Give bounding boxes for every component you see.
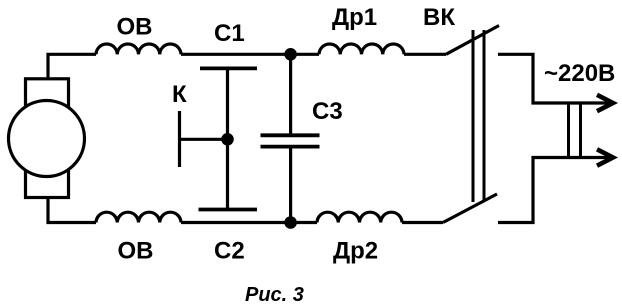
label С1 — [214, 20, 245, 47]
node: bottom junction — [284, 216, 297, 229]
switch VK gang bar line 2 — [483, 30, 486, 202]
motor brush (bottom) — [26, 162, 69, 198]
svg-text:К: К — [172, 81, 187, 108]
svg-text:Рис. 3: Рис. 3 — [245, 284, 304, 306]
label С2 — [214, 238, 245, 265]
caption Рис. 3 — [245, 284, 304, 306]
label ВК — [423, 4, 455, 31]
label Др2 — [333, 238, 378, 265]
node: top junction — [284, 48, 297, 61]
capacitor C1 plate — [200, 67, 257, 71]
inductor Dr1 (choke) — [319, 44, 404, 54]
svg-text:~220В: ~220В — [544, 60, 615, 87]
switch K contact bar — [178, 111, 181, 167]
socket bar line 1 — [567, 103, 570, 158]
wire: top junction to C3 — [289, 54, 292, 135]
socket bar line 2 — [579, 103, 582, 158]
wire: Dr2 to switch VK bottom — [402, 221, 443, 224]
svg-text:ВК: ВК — [423, 4, 455, 31]
svg-text:ОВ: ОВ — [117, 14, 153, 41]
motor brush (top) — [26, 79, 69, 115]
svg-text:ОВ: ОВ — [118, 238, 154, 265]
svg-text:Др2: Др2 — [333, 238, 378, 265]
svg-text:С2: С2 — [214, 238, 245, 265]
wire: Dr1 to switch VK top — [404, 53, 446, 56]
label ОВ (bottom) — [118, 238, 154, 265]
wire: motor bottom lead — [48, 198, 96, 223]
motor armature (circle) — [9, 101, 85, 177]
label ~220В — [544, 60, 615, 87]
label К — [172, 81, 187, 108]
wire: C3 to bottom junction — [289, 147, 292, 223]
plug pin arrowhead (bottom) — [597, 149, 613, 165]
node: center junction of K — [221, 133, 234, 146]
wire: K bar to center node — [180, 138, 228, 141]
wire: top, coil OV to coil Dr1 — [181, 53, 319, 56]
inductor OV (top field winding) — [96, 44, 181, 54]
inductor Dr2 (choke) — [317, 212, 402, 222]
wire: VK bottom fixed side to plug — [498, 158, 608, 223]
switch VK blade (top pole) — [446, 26, 499, 55]
capacitor C3 bottom plate — [261, 145, 320, 149]
wire: C1 plate to center node — [226, 68, 229, 139]
wire: VK top fixed side to plug — [498, 54, 608, 103]
plug pin arrowhead (top) — [597, 95, 613, 111]
capacitor C3 top plate — [261, 133, 320, 137]
label Др1 — [332, 4, 377, 31]
wire: motor top lead — [48, 54, 96, 79]
svg-text:Др1: Др1 — [332, 4, 377, 31]
wire: center node to C2 plate — [226, 139, 229, 209]
svg-text:С3: С3 — [312, 98, 343, 125]
switch VK gang bar line 1 — [472, 30, 475, 202]
svg-text:С1: С1 — [214, 20, 245, 47]
label ОВ (top) — [117, 14, 153, 41]
switch VK blade (bottom pole) — [443, 194, 497, 223]
capacitor C2 plate — [199, 208, 258, 212]
inductor OV (bottom field winding) — [96, 212, 181, 222]
label С3 — [312, 98, 343, 125]
wire: bottom, coil OV to coil Dr2 — [181, 221, 317, 224]
